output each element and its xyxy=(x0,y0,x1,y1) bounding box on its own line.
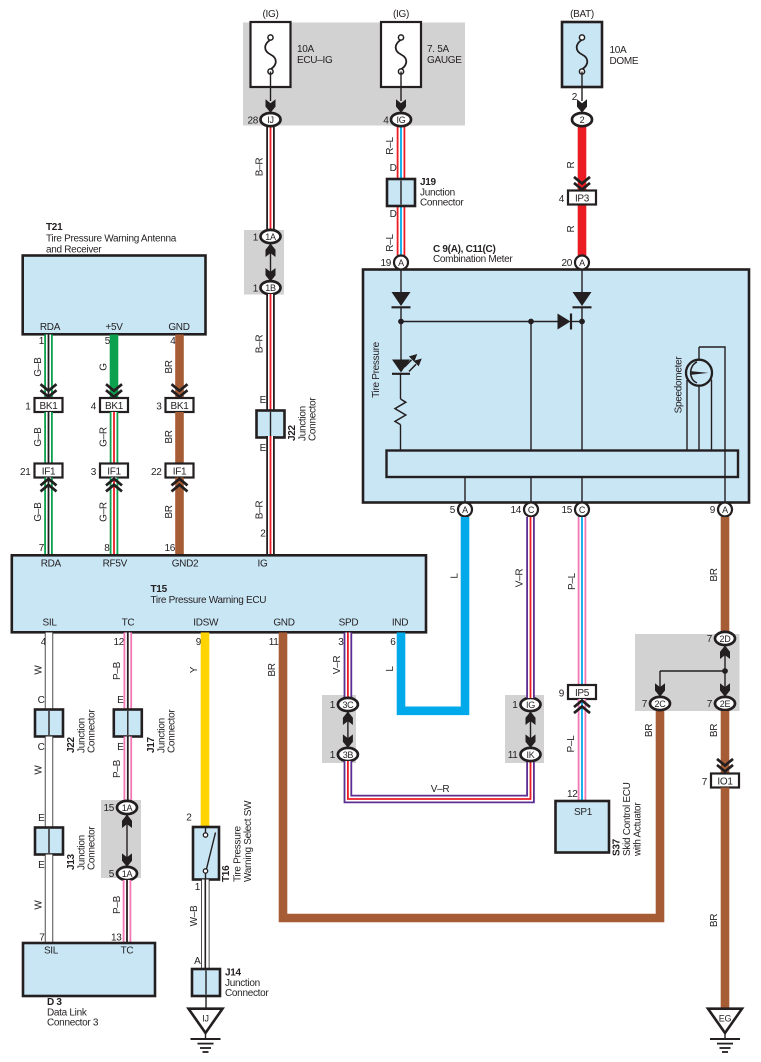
svg-text:1: 1 xyxy=(330,700,336,711)
svg-text:22: 22 xyxy=(151,467,162,478)
node 1A oval, pin 1 xyxy=(253,230,281,244)
wire label BR at meter pin 9 column xyxy=(709,568,720,581)
connector pair 3C/3B with arrows xyxy=(343,711,353,748)
svg-text:with Actuator: with Actuator xyxy=(632,802,643,857)
junction connector J22 middle xyxy=(257,411,285,438)
node 1A oval pin 15 xyxy=(103,801,137,814)
fuse GAUGE 7.5A xyxy=(381,22,421,113)
splice chevron above BK1 col2 xyxy=(106,384,122,397)
svg-text:RF5V: RF5V xyxy=(103,559,128,570)
wire label P-L xyxy=(566,735,577,753)
svg-text:W: W xyxy=(34,765,45,775)
meter bus bar stub to pin 5 xyxy=(464,477,466,503)
svg-text:Connector: Connector xyxy=(87,709,98,753)
svg-text:A: A xyxy=(462,505,468,515)
svg-text:T16: T16 xyxy=(221,865,232,882)
svg-text:BR: BR xyxy=(164,360,175,373)
wire label BR at GND column xyxy=(267,663,278,676)
svg-text:2: 2 xyxy=(580,115,585,125)
wire W-B from T16 to junction J14 xyxy=(201,880,209,971)
wire BR from T15 GND down right and up to connector 2C xyxy=(283,633,660,919)
pin 3 label T15 SPD xyxy=(338,637,344,648)
ground IJ xyxy=(189,1009,223,1052)
label J14 Junction Connector xyxy=(225,968,269,1000)
wire BR from T21 GND to BK1 xyxy=(175,335,184,400)
svg-text:7. 5A: 7. 5A xyxy=(427,44,449,55)
ECU T21 Tire Pressure Warning Antenna and Receiver xyxy=(23,256,206,335)
svg-text:IND: IND xyxy=(392,618,408,629)
svg-text:E: E xyxy=(117,742,124,753)
svg-text:SIL: SIL xyxy=(44,946,59,957)
junction connector J14 xyxy=(192,969,220,996)
svg-text:RDA: RDA xyxy=(41,559,62,570)
junction connector J13 xyxy=(35,828,63,855)
svg-text:21: 21 xyxy=(20,467,31,478)
diode D3 under pin 20 xyxy=(573,292,592,307)
connector BK1 pin 1 xyxy=(25,398,62,413)
label J17 Junction Connector rotated xyxy=(146,709,178,753)
svg-text:SIL: SIL xyxy=(43,618,58,629)
gray band connector 3C/3B xyxy=(322,695,356,763)
svg-text:3: 3 xyxy=(91,467,97,478)
svg-text:12: 12 xyxy=(113,637,124,648)
svg-text:Tire Pressure Warning ECU: Tire Pressure Warning ECU xyxy=(151,595,267,606)
svg-text:15: 15 xyxy=(103,803,114,814)
wire label V-R horizontal xyxy=(431,784,450,795)
svg-text:2: 2 xyxy=(260,529,266,540)
wire P-B from J17 to connector 1A upper xyxy=(124,737,133,803)
wire label G-R col2 lower xyxy=(99,502,110,522)
svg-text:GAUGE: GAUGE xyxy=(427,55,462,66)
svg-text:2C: 2C xyxy=(655,699,667,709)
svg-text:C: C xyxy=(38,695,45,706)
wire label R-L lower xyxy=(385,234,396,252)
svg-text:IF1: IF1 xyxy=(173,467,187,478)
label J13 Junction Connector rotated xyxy=(66,826,98,870)
svg-text:E: E xyxy=(260,395,267,406)
svg-text:V–R: V–R xyxy=(332,656,343,675)
svg-text:E: E xyxy=(38,813,45,824)
svg-text:1: 1 xyxy=(25,402,31,413)
fuse DOME 10A xyxy=(562,22,602,113)
pin 2 label at fuse DOME output xyxy=(572,92,578,103)
wire label V-R at SPD column xyxy=(332,656,343,675)
wire label W-B xyxy=(189,905,200,926)
svg-text:1: 1 xyxy=(195,882,201,893)
meter internal wire diode D1 to LED xyxy=(400,307,402,359)
svg-text:DOME: DOME xyxy=(610,56,639,67)
pin 13 label D3 TC xyxy=(111,933,122,944)
pin 2 label at T15 IG xyxy=(260,529,266,540)
gray band connector 2D/2C/2E xyxy=(635,634,740,711)
wire G-R from BK1 to IF1 col2 xyxy=(110,412,119,464)
svg-text:G–R: G–R xyxy=(99,427,110,447)
node IG oval, pin 4 xyxy=(383,113,411,127)
splice chevron below IF1 col2 xyxy=(106,479,122,492)
svg-text:P–L: P–L xyxy=(566,735,577,753)
wire P-B from connector 1A to D3 TC xyxy=(123,880,132,944)
svg-text:C: C xyxy=(579,505,586,515)
wire label L at meter pin 5 column xyxy=(450,573,461,579)
svg-text:R: R xyxy=(566,225,577,232)
pin 11 label T15 GND xyxy=(269,637,280,648)
svg-text:EG: EG xyxy=(719,1014,732,1024)
label C below J22 xyxy=(38,742,45,753)
pin 12 label T15 TC xyxy=(113,637,124,648)
wire label G-B col1 upper xyxy=(33,357,44,377)
node 3C oval pin 1 xyxy=(330,698,358,711)
svg-text:1: 1 xyxy=(253,284,259,295)
node IK oval pin 11 xyxy=(508,748,541,761)
wire B-R from fuse ECU-IG to connector 1A xyxy=(266,124,275,232)
wire BR from IF1 to T15 pin 16 xyxy=(175,478,184,557)
meter pin 20 circle A xyxy=(561,256,589,270)
pin 4 label T21 GND xyxy=(170,336,176,347)
junction connector J19 xyxy=(387,179,415,206)
meter bus bar stub to pin 15 xyxy=(581,477,583,503)
svg-text:15: 15 xyxy=(561,505,572,516)
pin 1 label T16 xyxy=(195,882,201,893)
svg-text:B–R: B–R xyxy=(255,335,266,354)
svg-text:G: G xyxy=(99,363,110,371)
wire G-B from T21 RDA to BK1 xyxy=(44,335,53,400)
label D 3 Data Link Connector 3 xyxy=(47,997,99,1029)
svg-text:P–L: P–L xyxy=(567,572,578,590)
svg-text:P–B: P–B xyxy=(112,895,123,914)
gray band top fuses xyxy=(243,23,465,126)
pin 6 label T15 IND xyxy=(390,637,396,648)
svg-text:4: 4 xyxy=(383,116,389,127)
svg-text:P–B: P–B xyxy=(112,759,123,778)
label E below J13 xyxy=(38,860,45,871)
label E above J22 mid xyxy=(260,395,267,406)
svg-text:R–L: R–L xyxy=(385,234,396,252)
svg-text:BR: BR xyxy=(644,724,655,737)
combination meter C9(A) C11(C) box xyxy=(363,270,749,503)
ground EG xyxy=(708,1009,742,1052)
svg-text:S37: S37 xyxy=(612,838,623,856)
wire label P-B col TC lower xyxy=(112,895,123,914)
pin 7 label T15 RDA xyxy=(39,543,45,554)
svg-text:14: 14 xyxy=(510,505,521,516)
wire label G-B col1 lower xyxy=(33,502,44,522)
svg-text:D: D xyxy=(390,209,397,220)
splice chevron above BK1 col1 xyxy=(41,384,57,397)
svg-text:3: 3 xyxy=(338,637,344,648)
wire label BR col3 lower xyxy=(164,505,175,518)
svg-text:A: A xyxy=(722,505,728,515)
svg-text:IG: IG xyxy=(258,559,268,570)
label T16 Tire Pressure Warning Select SW rotated xyxy=(221,800,254,882)
label S37 Skid Control ECU with Actuator rotated xyxy=(612,782,644,857)
wire label W col SIL lower xyxy=(34,900,45,910)
label Speedometer rotated xyxy=(674,356,685,414)
svg-text:C: C xyxy=(38,742,45,753)
meter pin 14 circle C xyxy=(510,503,538,517)
svg-text:Connector 3: Connector 3 xyxy=(47,1018,99,1029)
wire label P-B col TC upper xyxy=(112,661,123,680)
svg-text:G–B: G–B xyxy=(33,357,44,377)
pin 7 label D3 SIL xyxy=(39,933,45,944)
svg-text:20: 20 xyxy=(561,258,572,269)
node IG oval pin 1 xyxy=(512,698,540,711)
wire R from connector IP3 to combination meter pin 20 xyxy=(578,203,587,256)
svg-text:Connector: Connector xyxy=(225,988,269,999)
svg-text:Connector: Connector xyxy=(87,826,98,870)
svg-text:1: 1 xyxy=(330,750,336,761)
resistor in tire pressure branch xyxy=(395,399,406,425)
meter internal wire resistor to bus bar xyxy=(400,425,402,451)
wire L from T15 IND down right and up to meter pin 5 xyxy=(401,517,465,711)
svg-text:IDSW: IDSW xyxy=(193,618,219,629)
label C above J22 xyxy=(38,695,45,706)
splice chevron below IP5 xyxy=(574,701,590,714)
wire G from T21 +5V to BK1 xyxy=(110,335,119,400)
wire label BR at ground run xyxy=(709,914,720,927)
meter internal wire from pin 19 xyxy=(400,270,402,294)
junction node on tire pressure branch xyxy=(398,319,404,325)
svg-text:Connector: Connector xyxy=(420,198,464,209)
label E below J17 xyxy=(117,742,124,753)
wire V-R from T15 SPD to connector 3C xyxy=(344,633,353,700)
svg-text:Tire Pressure Warning Antenna: Tire Pressure Warning Antenna xyxy=(46,234,177,245)
meter pin 15 circle C xyxy=(561,503,589,517)
pin 8 label T15 RF5V xyxy=(104,543,110,554)
svg-text:4: 4 xyxy=(559,194,565,205)
label J22 Junction Connector rotated xyxy=(287,397,319,441)
label J22 Junction Connector rotated lower-left xyxy=(66,709,98,753)
LED tire pressure indicator xyxy=(392,354,422,374)
value label 10A DOME xyxy=(610,45,639,67)
label Tire Pressure rotated xyxy=(371,341,382,397)
wire W from T15 SIL to junction J22 xyxy=(45,633,53,712)
svg-text:Warning Select SW: Warning Select SW xyxy=(243,800,254,882)
svg-text:BR: BR xyxy=(709,724,720,737)
fuse ECU-IG 10A xyxy=(251,22,291,113)
meter pin 5 circle A xyxy=(450,503,472,517)
wire label B-R above 1A xyxy=(255,158,266,177)
svg-text:1A: 1A xyxy=(265,232,276,242)
svg-text:2E: 2E xyxy=(720,699,731,709)
label E above J17 xyxy=(117,695,124,706)
svg-text:+5V: +5V xyxy=(105,322,123,333)
wire label R lower xyxy=(566,225,577,232)
value label 7.5A GAUGE xyxy=(427,44,462,66)
connector pair 1A/1A with arrows lower-left xyxy=(122,814,132,867)
svg-text:BR: BR xyxy=(709,914,720,927)
label A above J14 xyxy=(194,956,201,967)
wire label W col SIL middle xyxy=(34,765,45,775)
meter internal wire diode D3 to bus bar xyxy=(581,307,583,451)
wire P-L from IP5 to SP1 pin 12 xyxy=(578,699,587,802)
ECU S37 Skid Control ECU with Actuator box SP1 xyxy=(556,801,610,853)
wire BR from 2E to connector IO1 xyxy=(721,711,730,774)
svg-text:1A: 1A xyxy=(122,869,133,879)
svg-text:TC: TC xyxy=(122,618,135,629)
meter pin 9 circle A xyxy=(710,503,732,517)
junction node to SPD branch xyxy=(528,319,534,325)
wire label R upper xyxy=(566,161,577,168)
wire label G col2 upper xyxy=(99,363,110,371)
value label 10A ECU-IG xyxy=(297,44,333,66)
connector IF1 pin 21 xyxy=(20,464,63,479)
svg-text:1B: 1B xyxy=(265,283,276,293)
splice chevron on R wire above IP3 xyxy=(574,177,590,190)
pin 4 label T15 SIL xyxy=(41,637,47,648)
wire from J14 to ground IJ xyxy=(205,996,207,1009)
svg-text:7: 7 xyxy=(707,634,713,645)
svg-text:E: E xyxy=(260,443,267,454)
svg-text:BR: BR xyxy=(164,505,175,518)
svg-text:8: 8 xyxy=(104,543,110,554)
svg-text:BR: BR xyxy=(164,430,175,443)
wire G-B from BK1 to IF1 xyxy=(44,412,53,464)
label (IG) for fuse GAUGE xyxy=(393,9,409,20)
svg-text:A: A xyxy=(398,258,404,268)
meter internal wire LED to resistor xyxy=(400,374,402,399)
svg-text:Tire Pressure: Tire Pressure xyxy=(233,826,244,882)
svg-text:IF1: IF1 xyxy=(42,467,56,478)
meter internal wire from pin 20 xyxy=(581,270,583,294)
meter bus bar stub to pin 14 xyxy=(530,477,532,503)
svg-text:BR: BR xyxy=(709,568,720,581)
svg-text:W: W xyxy=(34,900,45,910)
junction connector J17 xyxy=(114,710,142,737)
connector pair 1A/1B with arrows xyxy=(266,243,276,282)
wire R-L from fuse GAUGE to junction J19 xyxy=(397,124,406,181)
svg-text:E: E xyxy=(38,860,45,871)
wire label P-B col TC middle xyxy=(112,759,123,778)
diode D2 horizontal xyxy=(558,314,583,330)
svg-text:B–R: B–R xyxy=(255,158,266,177)
svg-text:7: 7 xyxy=(707,699,713,710)
node 2C oval pin 7 xyxy=(642,697,670,710)
svg-text:1A: 1A xyxy=(122,803,133,813)
junction node under diode D3 xyxy=(579,319,585,325)
label E above J13 xyxy=(38,813,45,824)
ECU T15 Tire Pressure Warning ECU box xyxy=(12,555,426,632)
svg-text:16: 16 xyxy=(164,543,175,554)
svg-text:Connector: Connector xyxy=(308,397,319,441)
svg-text:IJ: IJ xyxy=(267,115,273,125)
svg-text:2: 2 xyxy=(572,92,578,103)
wire R from fuse DOME to connector IP3 xyxy=(578,124,587,192)
gray band connector IG/IK xyxy=(505,695,544,763)
svg-text:2D: 2D xyxy=(720,634,732,644)
svg-text:G–B: G–B xyxy=(33,502,44,522)
switch T16 Tire Pressure Warning Select SW xyxy=(193,827,219,880)
label J19 Junction Connector xyxy=(420,177,464,209)
node IJ oval, pin 28 xyxy=(247,113,280,127)
connector IF1 pin 3 xyxy=(91,464,128,479)
label D above J19 xyxy=(390,163,397,174)
svg-text:9: 9 xyxy=(710,505,716,516)
pin 1 label T21 RDA xyxy=(39,336,45,347)
wire label B-R middle xyxy=(255,335,266,354)
wire BR from IO1 to ground EG xyxy=(721,788,730,1009)
connector IO1 pin 7 xyxy=(702,774,739,789)
speedometer symbol xyxy=(686,347,725,503)
svg-text:12: 12 xyxy=(567,789,578,800)
svg-text:2: 2 xyxy=(186,813,192,824)
meter internal horizontal wire to diode D2 xyxy=(401,321,558,323)
wire W from J13 to D3 SIL xyxy=(45,855,53,945)
wire R-L from junction J19 to combination meter pin 19 xyxy=(397,204,406,256)
label (BAT) for fuse DOME xyxy=(570,9,594,20)
wire P-L from meter pin 15 to connector IP5 xyxy=(578,517,587,686)
label C 9(A), C11(C) Combination Meter xyxy=(433,244,513,265)
svg-text:IK: IK xyxy=(527,750,535,760)
svg-text:G–R: G–R xyxy=(99,502,110,522)
wire W from J22 to J13 xyxy=(45,737,53,829)
connector IF1 pin 22 xyxy=(151,464,194,479)
svg-text:3B: 3B xyxy=(343,750,354,760)
node 1A oval pin 5 xyxy=(109,867,137,880)
wire label R-L upper xyxy=(385,137,396,155)
wire BR from meter pin 9 to connector 2D xyxy=(721,517,730,633)
wire label G-B col1 middle xyxy=(33,427,44,447)
svg-text:T21: T21 xyxy=(46,222,63,233)
svg-text:BK1: BK1 xyxy=(170,401,189,412)
svg-text:Speedometer: Speedometer xyxy=(674,356,685,414)
wire label BR below 2C xyxy=(644,724,655,737)
svg-text:T15: T15 xyxy=(151,584,168,595)
connector pair IG/IK with arrows xyxy=(526,711,536,748)
wire B-R from 1B to junction J22 xyxy=(266,294,275,412)
label D below J19 xyxy=(390,209,397,220)
svg-text:IP3: IP3 xyxy=(575,194,590,205)
pin 5 label T21 +5V xyxy=(105,336,111,347)
connector BK1 pin 3 xyxy=(156,398,193,413)
label T21 Tire Pressure Warning Antenna and Receiver xyxy=(46,222,177,256)
svg-text:E: E xyxy=(117,695,124,706)
svg-text:11: 11 xyxy=(508,750,519,761)
svg-text:7: 7 xyxy=(39,543,45,554)
svg-text:TC: TC xyxy=(121,946,134,957)
svg-text:11: 11 xyxy=(269,637,280,648)
svg-text:(IG): (IG) xyxy=(393,9,409,20)
svg-text:3: 3 xyxy=(156,402,162,413)
svg-text:(IG): (IG) xyxy=(262,9,278,20)
svg-text:GND2: GND2 xyxy=(172,559,199,570)
node 2E oval pin 7 xyxy=(707,697,735,710)
svg-text:and Receiver: and Receiver xyxy=(46,245,102,256)
wire P-B from T15 TC to junction J17 xyxy=(124,633,133,712)
wire label L at IND column xyxy=(385,666,396,672)
pin 16 label T15 GND2 xyxy=(164,543,175,554)
svg-text:7: 7 xyxy=(642,699,648,710)
node 3B oval pin 1 xyxy=(330,748,358,761)
gray band connector 1A/1B xyxy=(244,230,284,295)
svg-text:BK1: BK1 xyxy=(39,401,58,412)
wire label G-R col2 middle xyxy=(99,427,110,447)
svg-text:IJ: IJ xyxy=(202,1014,208,1024)
svg-text:V–R: V–R xyxy=(431,784,450,795)
connector BK1 pin 4 xyxy=(91,398,128,413)
svg-text:IG: IG xyxy=(526,700,535,710)
svg-text:1: 1 xyxy=(512,700,518,711)
connector D3 Data Link Connector 3 box xyxy=(23,943,155,996)
svg-text:Tire Pressure: Tire Pressure xyxy=(371,341,382,397)
svg-text:6: 6 xyxy=(390,637,396,648)
svg-text:ECU–IG: ECU–IG xyxy=(297,55,333,66)
svg-text:BR: BR xyxy=(267,663,278,676)
splice chevron above IO1 xyxy=(717,759,733,772)
svg-text:(BAT): (BAT) xyxy=(570,9,594,20)
junction connector J22 lower xyxy=(35,710,63,737)
gray band connector 1A/1A lower-left xyxy=(101,800,141,878)
svg-text:IO1: IO1 xyxy=(717,777,733,788)
